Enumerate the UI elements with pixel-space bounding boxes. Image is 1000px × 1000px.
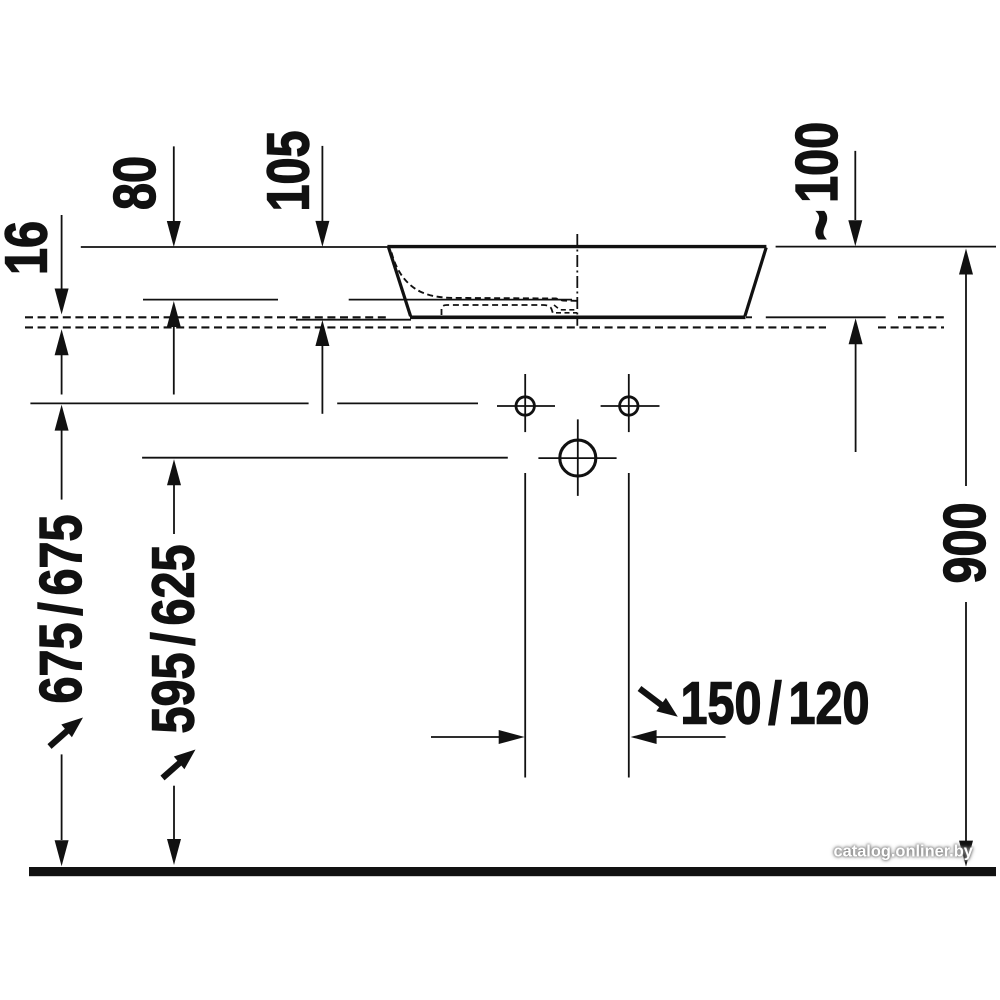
- drain body dashed outline: [442, 305, 554, 315]
- dim 16 line + arrows: [61, 215, 63, 290]
- dim 105 line + arrows: [321, 146, 323, 221]
- svg-text:150/120: 150/120: [681, 671, 870, 737]
- inner-bottom level line (80 target), two segments: [143, 299, 278, 301]
- counter top dashed line (16 upper): [25, 316, 389, 318]
- svg-text:105: 105: [256, 131, 322, 212]
- svg-text:900: 900: [933, 503, 999, 584]
- dim 675/675: [55, 405, 69, 431]
- basin left slope: [389, 248, 411, 317]
- drain hole: circle + crosshair: [560, 440, 596, 476]
- svg-text:~100: ~100: [783, 122, 857, 241]
- basin rim top: [387, 245, 766, 248]
- small stub right of basin corner: [746, 316, 752, 318]
- 675 oblique arrow: [61, 718, 83, 738]
- floor line: [29, 867, 996, 876]
- faucet hole left: circle + crosshair: [516, 397, 534, 415]
- counter bottom dashed line (16 lower): [25, 326, 826, 328]
- dim 595/625: [167, 459, 181, 485]
- basin right slope: [745, 248, 766, 317]
- svg-text:16: 16: [0, 221, 60, 275]
- drain step dashes right: [554, 305, 577, 310]
- 150/120 oblique arrow: [656, 698, 678, 717]
- svg-text:80: 80: [102, 156, 168, 210]
- mid reference line (675 target): [30, 402, 308, 404]
- dim ~100 line + arrow: [854, 151, 856, 220]
- extension lines for 150/120: [524, 473, 526, 778]
- counter solid segment right of basin: [766, 316, 886, 318]
- basin bottom: [410, 315, 746, 319]
- svg-text:595/625: 595/625: [141, 545, 207, 734]
- dim 80 line + arrows: [173, 146, 175, 222]
- basin-bottom extension line (105 target): [296, 319, 411, 321]
- inner bowl dashed profile: [392, 253, 578, 301]
- right mid arrow (counter level): [849, 318, 863, 344]
- top reference line left segment: [81, 246, 389, 248]
- 595 oblique arrow: [174, 750, 196, 770]
- 150/120 dimension arrows: [431, 736, 500, 738]
- dim 900: [959, 249, 973, 275]
- centerline dash-dot: [576, 234, 578, 326]
- svg-text:catalog.onliner.by: catalog.onliner.by: [834, 843, 974, 861]
- top reference line right segment: [776, 246, 996, 248]
- faucet hole right: circle + crosshair: [620, 397, 638, 415]
- drain lower dash: [556, 312, 577, 314]
- svg-text:675/675: 675/675: [29, 515, 95, 704]
- lower reference line (595 target): [142, 457, 508, 459]
